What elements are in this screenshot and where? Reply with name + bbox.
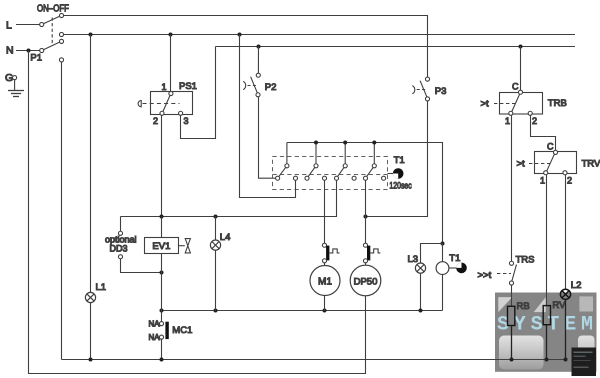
timer motor T1 (436, 253, 467, 275)
svg-text:>t: >t (517, 159, 526, 170)
lamp L4 (210, 217, 230, 311)
wire TRB pin2 to TRV (531, 116, 556, 151)
junction P2 feed (257, 45, 261, 49)
ground (13, 76, 17, 80)
svg-text:G: G (5, 72, 13, 84)
switch P1 (30, 13, 63, 63)
svg-text:DD3: DD3 (110, 244, 128, 254)
junction rail L3 (419, 309, 423, 313)
wire TRV pin2 to L2 (565, 175, 567, 289)
junction cam bus S3 (343, 141, 347, 145)
timer contact S3 out (352, 176, 356, 180)
wire S3 to EV rail (121, 180, 337, 216)
wire N input (16, 50, 40, 52)
resistor RB (508, 301, 530, 326)
junction cam bus S4 (372, 141, 376, 145)
wire S4 to DP50 (365, 180, 367, 243)
wire out1 to N bus (240, 35, 296, 198)
junction L2 return (564, 358, 568, 362)
wire P2 feed drop (257, 47, 259, 74)
svg-text:TRS: TRS (516, 254, 535, 265)
thermal protector M1 (322, 243, 339, 263)
svg-text:C: C (547, 141, 554, 151)
wire loads rail (162, 310, 443, 312)
junction PS1 feed (169, 33, 173, 37)
svg-text:>t: >t (481, 99, 490, 110)
junction rail MC1 (160, 309, 164, 313)
svg-text:L: L (6, 20, 12, 32)
wire P2 to T1 S1 (259, 97, 276, 178)
svg-text:P1: P1 (30, 53, 42, 64)
thermostat TRB (481, 81, 567, 126)
svg-text:RV: RV (552, 300, 566, 311)
lamp L1 (85, 35, 106, 360)
wire P3 down to S4 column (366, 101, 428, 216)
wire N return line (62, 359, 566, 361)
svg-text:1: 1 (540, 175, 545, 185)
junction TRB feed (519, 45, 523, 49)
svg-text:L2: L2 (571, 280, 582, 291)
wire PS1 pin3 to right bus (181, 47, 216, 139)
svg-text:2: 2 (153, 116, 158, 126)
svg-text:1: 1 (162, 82, 167, 92)
thermal protector DP50 (363, 243, 380, 263)
wire PS1 pin1 drop (170, 35, 172, 92)
wire EV rail junction L4 (214, 215, 218, 219)
junction L1 return (89, 358, 93, 362)
wire T1 motor bottom (442, 275, 444, 311)
svg-text:PS1: PS1 (179, 81, 197, 92)
svg-text:L4: L4 (220, 232, 231, 243)
svg-text:2: 2 (567, 175, 572, 185)
junction N (27, 49, 31, 53)
timer contact S4 (363, 164, 376, 181)
wire RV bottom (546, 325, 548, 360)
timer T1 cam link (273, 174, 388, 176)
junction MC1 return (160, 358, 164, 362)
junction RV return (545, 358, 549, 362)
svg-text:TRV: TRV (582, 159, 600, 170)
junction T1 out1 feed (238, 33, 242, 37)
svg-text:P2: P2 (265, 82, 277, 93)
svg-text:N: N (6, 44, 14, 56)
timer contact S1 (276, 164, 289, 181)
wire N switched bus (64, 34, 575, 36)
svg-text:3: 3 (184, 116, 189, 126)
wire L2 bottom (565, 299, 567, 359)
pressure switch PS1 (138, 81, 197, 126)
wire aux rail (61, 62, 63, 359)
wire T1 motor top (442, 244, 444, 262)
svg-text:T1: T1 (394, 155, 405, 166)
wire cam common bus (287, 143, 443, 244)
timer T1 cam box (273, 157, 388, 190)
svg-text:P3: P3 (435, 86, 447, 97)
lamp L3 (408, 254, 426, 273)
junction cam bus S2 (314, 141, 318, 145)
terminals DD3 (105, 217, 162, 273)
svg-text:T1: T1 (449, 253, 460, 264)
svg-text:NA: NA (149, 319, 161, 328)
timer contact S3 (334, 164, 347, 181)
pushbutton P2 (243, 73, 276, 97)
wire TRV pin1 to RV (546, 175, 548, 306)
watermark background box (495, 293, 598, 377)
svg-text:L3: L3 (408, 254, 419, 265)
svg-text:RB: RB (517, 301, 530, 312)
svg-text:DP50: DP50 (354, 276, 378, 287)
wire L input (16, 24, 40, 26)
timer T1 clock (388, 168, 404, 179)
wire PS1 pin2 drop (161, 116, 163, 216)
timer contact S2 out (322, 176, 326, 180)
junction P3-S4 (364, 215, 368, 219)
wire TRS to RB (511, 285, 513, 306)
wire right L bus (216, 46, 576, 48)
svg-text:EV1: EV1 (152, 241, 170, 252)
svg-text:>>t: >>t (478, 270, 492, 281)
wire out2 to M1 (324, 180, 326, 243)
junction rail L4 (214, 309, 218, 313)
svg-text:M1: M1 (318, 276, 332, 287)
svg-text:L1: L1 (96, 282, 107, 293)
timer contact S1 out (293, 176, 297, 180)
junction rail M1 (323, 309, 327, 313)
timer contact S2 (305, 164, 318, 181)
junction L3 branch (441, 242, 445, 246)
valve coil EV1 (145, 217, 191, 311)
wire M1 bottom (324, 296, 326, 311)
timer contact S4 out (382, 176, 386, 180)
wire EV rail junction EV1 (160, 215, 164, 219)
contactor MC1 (149, 311, 193, 360)
svg-text:TRB: TRB (548, 98, 567, 109)
svg-text:120sec: 120sec (389, 179, 411, 190)
thermal switch TRS (478, 254, 535, 285)
wire L3 branch (421, 244, 443, 264)
wire TRB pin1 to TRS (511, 116, 513, 262)
svg-text:ON–OFF: ON–OFF (37, 3, 69, 14)
svg-text:MC1: MC1 (172, 325, 192, 336)
wire L3 bottom (420, 273, 422, 310)
wire L switched bus (64, 16, 428, 77)
junction DD3 return (160, 271, 164, 275)
pushbutton P3 (412, 77, 446, 101)
junction RB return (510, 358, 514, 362)
wire RB bottom (511, 326, 513, 360)
svg-text:C: C (512, 81, 519, 91)
lamp L2 (560, 280, 581, 299)
svg-text:2: 2 (532, 116, 537, 126)
pump DP50 (350, 263, 381, 296)
motor M1 (310, 263, 340, 296)
resistor RV (543, 300, 566, 325)
svg-text:1: 1 (505, 116, 510, 126)
junction L1 feed (89, 33, 93, 37)
svg-text:NA: NA (149, 333, 161, 342)
thermostat TRV (517, 141, 600, 185)
wire TRB feed (520, 47, 522, 91)
wire left N rail (29, 51, 366, 374)
